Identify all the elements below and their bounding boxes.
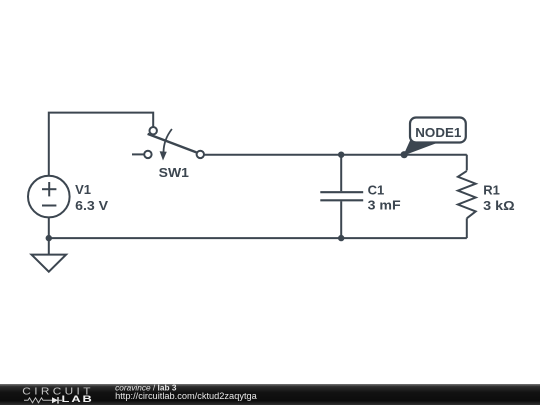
switch blade	[148, 134, 197, 153]
logo resistor squiggle	[24, 398, 52, 403]
wire right vertical top (to R1)	[466, 155, 468, 171]
svg-text:C1: C1	[368, 182, 385, 197]
switch SW1	[144, 127, 204, 158]
ground	[32, 255, 67, 272]
resistor R1	[458, 171, 476, 218]
logo diode	[52, 397, 58, 403]
node dot V1-ground junction	[46, 235, 52, 241]
voltage source V1	[28, 176, 70, 218]
wire left throw stub	[132, 153, 144, 155]
node NODE1 box	[410, 118, 466, 143]
wire top rail left (V1 top to switch)	[49, 113, 153, 176]
node dot C1 bottom	[338, 235, 344, 241]
wire R1 bottom lead	[466, 218, 468, 238]
node dot NODE1	[401, 151, 408, 158]
footer bar	[0, 384, 540, 405]
svg-text:V1: V1	[75, 182, 91, 197]
wire V1 bottom	[48, 217, 50, 238]
node dot C1 top	[338, 152, 344, 158]
svg-text:SW1: SW1	[159, 165, 189, 180]
wire C1 bottom lead	[340, 201, 342, 238]
svg-text:NODE1: NODE1	[415, 125, 461, 140]
node NODE1 flag pointer	[404, 140, 434, 155]
svg-text:3 kΩ: 3 kΩ	[483, 198, 515, 213]
switch arrow	[164, 129, 172, 152]
svg-text:6.3 V: 6.3 V	[75, 198, 108, 213]
svg-text:LAB: LAB	[62, 394, 94, 404]
svg-text:3 mF: 3 mF	[368, 197, 401, 212]
capacitor C1	[320, 192, 363, 200]
wire C1 top lead	[340, 155, 342, 192]
svg-text:http://circuitlab.com/cktud2za: http://circuitlab.com/cktud2zaqytga	[115, 391, 257, 401]
wire top rail right (switch to R1)	[204, 154, 467, 156]
wire bottom rail	[49, 237, 467, 239]
wire ground lead	[48, 238, 50, 255]
svg-text:R1: R1	[483, 182, 500, 197]
